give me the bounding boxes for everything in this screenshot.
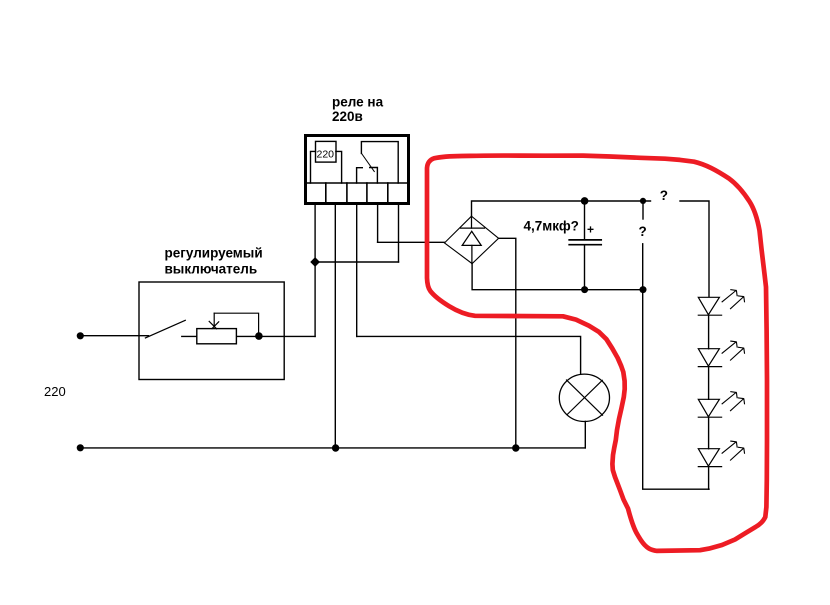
svg-text:?: ? [639, 224, 647, 239]
lamp cross [567, 380, 603, 415]
switch box [139, 282, 284, 380]
relay pin separator [305, 182, 408, 184]
wire pin2 down to bottom rail [334, 205, 336, 448]
lamp [559, 374, 609, 421]
junction pin2 rail [332, 444, 339, 451]
LED D3 [698, 399, 721, 417]
svg-text:+: + [587, 223, 594, 237]
LED D1 [698, 297, 721, 315]
LED D2 arrows [722, 341, 744, 360]
wire pin1 to pin5 link [315, 261, 398, 263]
capacitor C [569, 201, 601, 290]
LED D3 arrows [722, 392, 744, 411]
wire lamp to rail [584, 421, 586, 448]
wire bridge minus down [472, 264, 584, 290]
relay common armature frame [361, 142, 398, 183]
wire bridge right to down [499, 238, 516, 448]
wire bridge plus up [472, 201, 585, 216]
junction cap bottom [581, 286, 588, 293]
wire led2-led3 [708, 367, 710, 400]
switch blade [145, 320, 185, 338]
relay coil bracket [311, 151, 342, 183]
wire led4 to bottom [708, 467, 710, 490]
LED D4 [698, 449, 721, 467]
wire pin3 down [356, 205, 358, 337]
wire bottom rail [80, 447, 585, 449]
svg-text:220: 220 [44, 384, 66, 399]
relay pin divider 4 [387, 183, 389, 203]
junction pin1 link [311, 258, 319, 266]
wire pin5 down [398, 205, 400, 263]
relay K box [306, 136, 409, 204]
junction cap top [581, 197, 589, 205]
bridge inner diode [461, 216, 485, 263]
potentiometer wiper link [214, 313, 258, 336]
wire pin4 down [377, 205, 379, 243]
relay pin divider 3 [366, 183, 368, 203]
svg-text:выключатель: выключатель [165, 262, 258, 277]
junction node bottom [640, 286, 647, 293]
svg-text:реле на: реле на [332, 95, 384, 110]
junction wiper [255, 332, 263, 340]
bridge rectifier diamond [445, 216, 499, 263]
label switch name [165, 246, 263, 277]
LED D2 [698, 349, 721, 367]
wire switch to resistor [182, 335, 197, 337]
wire unknown part stub top [642, 204, 644, 219]
relay pin divider 1 [325, 183, 327, 203]
relay coil 220 box [316, 141, 337, 162]
relay contact NC right [370, 168, 378, 184]
junction node top [640, 198, 646, 204]
red annotation loop [427, 156, 767, 551]
svg-text:регулируемый: регулируемый [165, 246, 263, 261]
wire top gap to led column [680, 201, 709, 297]
svg-text:?: ? [660, 188, 668, 203]
wire led1-led2 [708, 315, 710, 349]
label relay name [332, 95, 384, 125]
wire led3-led4 [708, 417, 710, 449]
wire pin3 to lamp [357, 336, 581, 374]
svg-text:220в: 220в [332, 109, 363, 124]
relay armature blade [362, 154, 375, 172]
wire node bottom down [643, 290, 709, 490]
potentiometer arrow [209, 313, 219, 329]
wire cap top to node [585, 200, 651, 202]
wire pin1 down [314, 205, 316, 337]
terminal dot bottom left [77, 444, 84, 451]
svg-text:220: 220 [317, 149, 335, 161]
wire pin4 to bridge [378, 241, 445, 243]
relay pin divider 2 [346, 183, 348, 203]
wire mains top [80, 335, 149, 337]
wire cap bottom to node [585, 289, 644, 291]
relay contact NO left [357, 168, 363, 183]
LED D1 arrows [722, 290, 744, 309]
terminal dot top left [77, 332, 84, 339]
wire unknown part stub bottom [642, 244, 644, 290]
LED D4 arrows [722, 441, 744, 460]
wire resistor to pin1 [237, 335, 315, 337]
svg-text:4,7мкф?: 4,7мкф? [524, 219, 579, 234]
resistor body [197, 329, 237, 344]
junction bridge-return rail [512, 444, 519, 451]
